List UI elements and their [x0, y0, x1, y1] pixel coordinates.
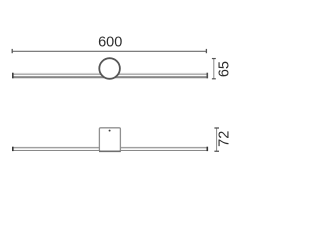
dimension tick bottom (65) [212, 78, 216, 80]
dimension line 72 [216, 128, 218, 151]
lamp bar (top view tube) [12, 147, 208, 151]
mounting box [99, 128, 120, 151]
lamp bar left end cap [12, 73, 14, 79]
lamp bar (front view tube) [12, 73, 208, 78]
dimension tick bottom (72) [214, 150, 219, 152]
dimension line 65 [213, 59, 215, 79]
lamp bar right end cap [207, 73, 209, 79]
screw dot [109, 130, 111, 132]
lamp head circle [99, 58, 120, 79]
dimension tick right [205, 49, 207, 53]
svg-text:65: 65 [217, 61, 233, 77]
dimension tick left [11, 49, 13, 53]
svg-text:72: 72 [217, 131, 233, 147]
top view bar right end cap [207, 147, 209, 151]
mounting box darker bottom edge [99, 150, 121, 152]
dimension line 600 [12, 50, 206, 52]
top view bar left end cap [12, 147, 14, 151]
svg-text:600: 600 [98, 35, 122, 51]
dimension tick top (72) [214, 127, 219, 129]
dimension tick top (65) [212, 58, 216, 60]
lamp bar soft bottom edge [12, 77, 208, 80]
